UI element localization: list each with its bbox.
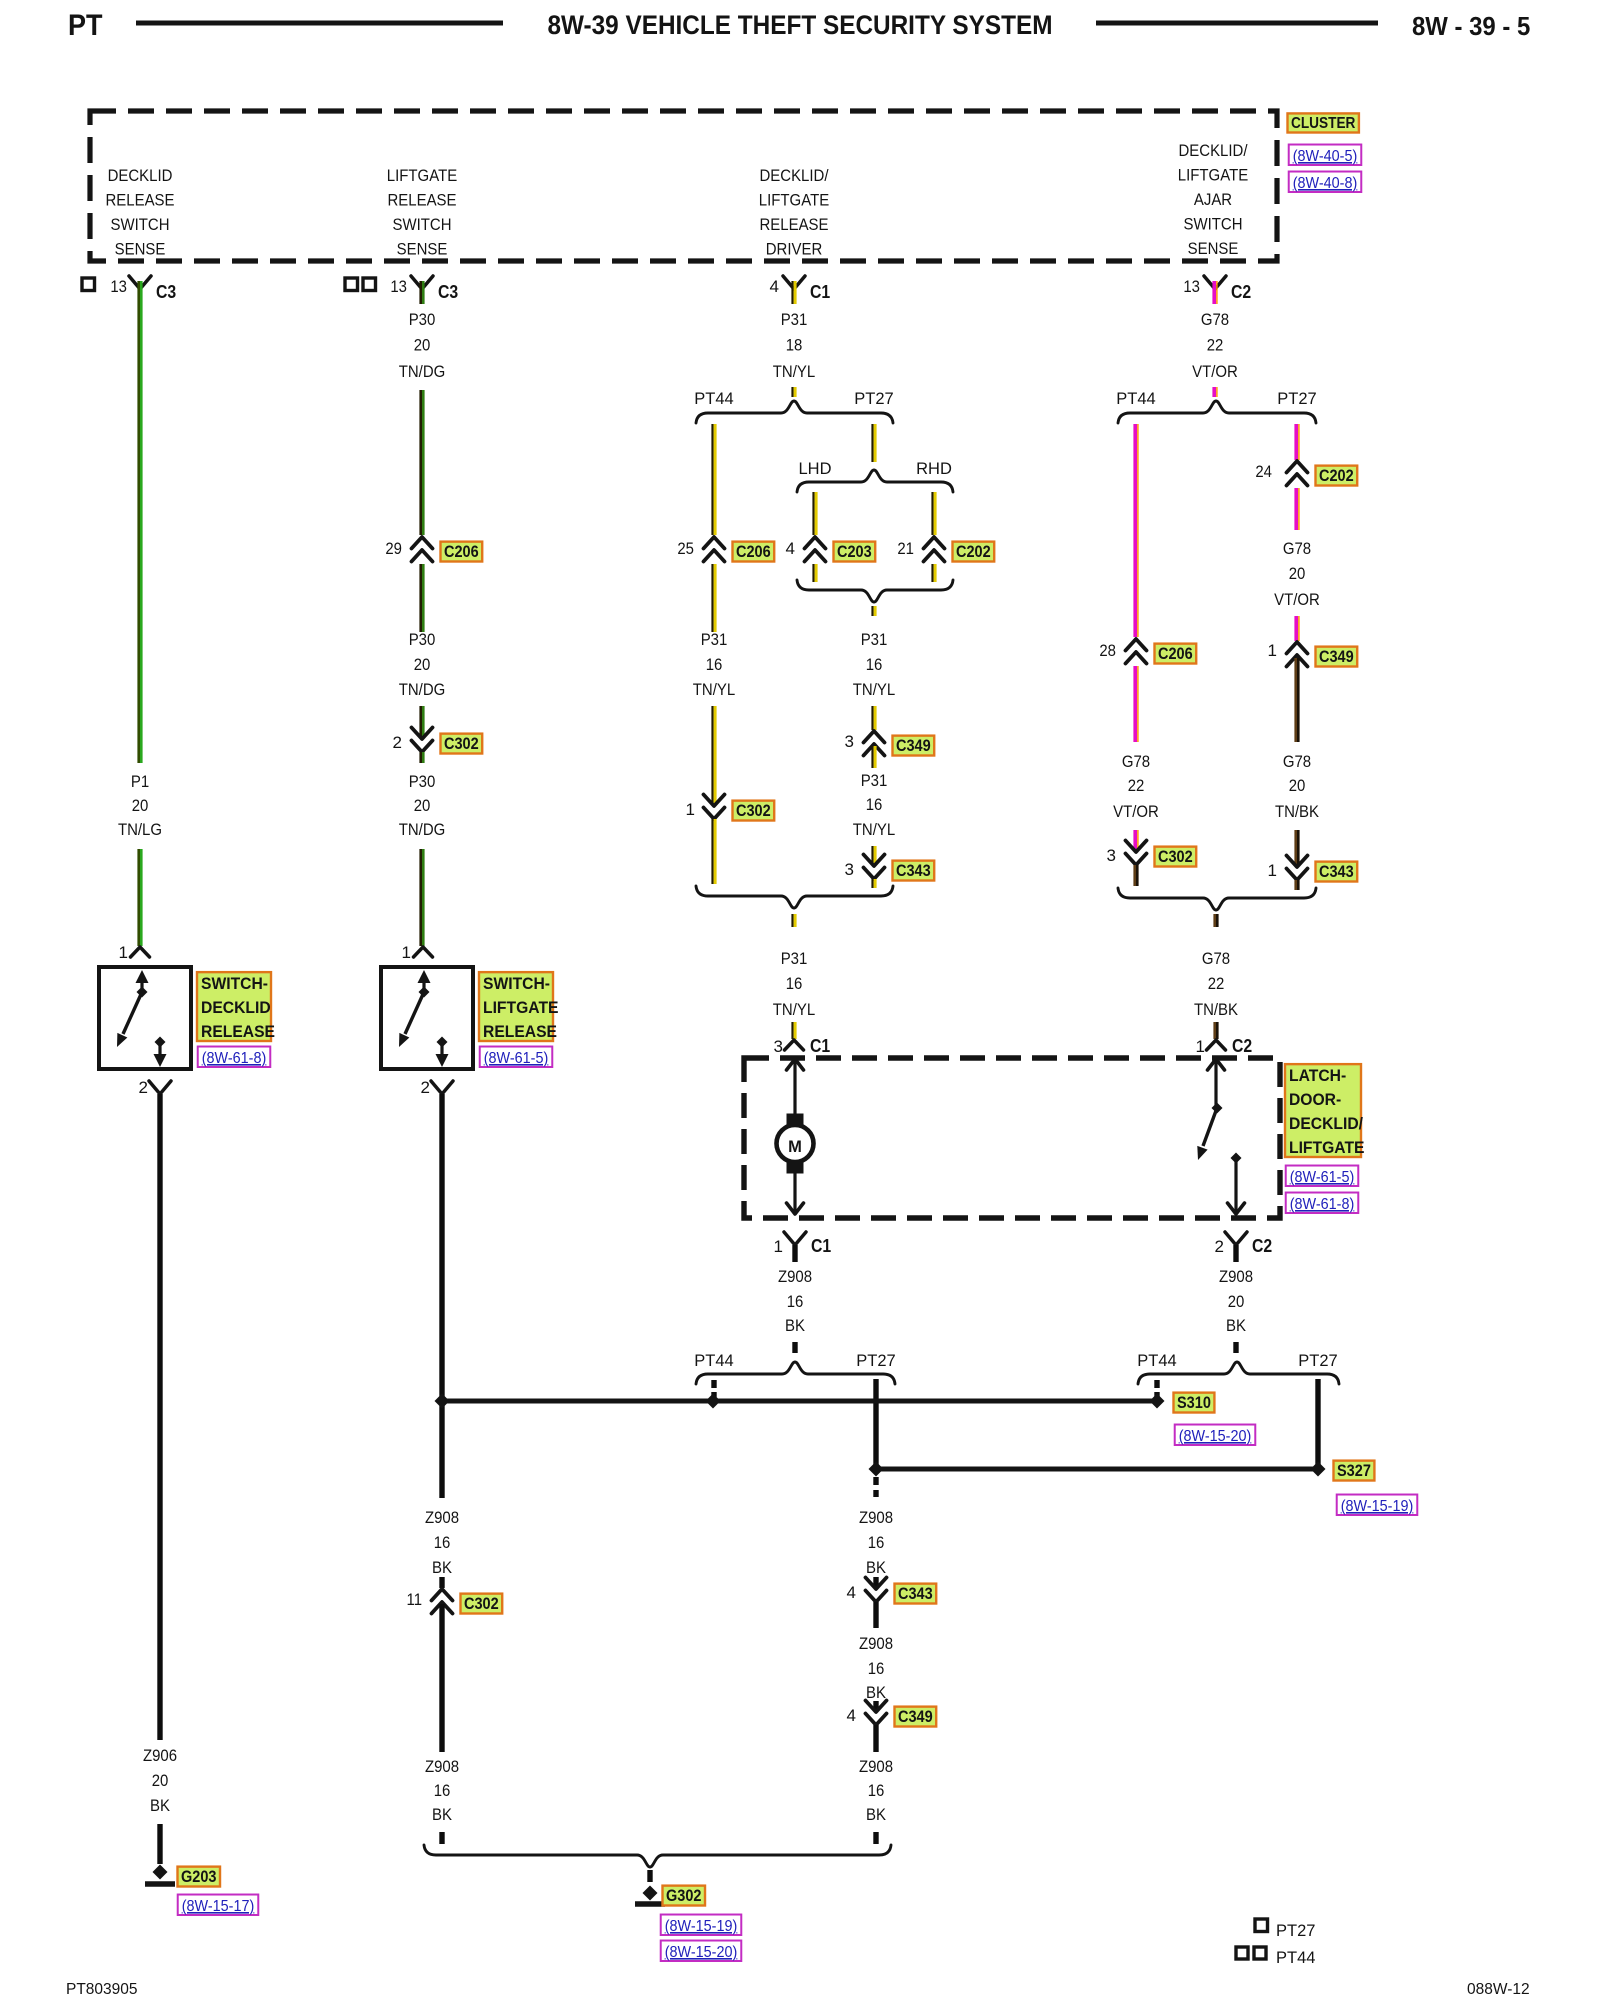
svg-text:PT27: PT27 [1298, 1352, 1337, 1370]
svg-text:PT27: PT27 [854, 390, 893, 408]
svg-text:C202: C202 [956, 543, 991, 561]
svg-text:S327: S327 [1337, 1462, 1371, 1480]
svg-text:1: 1 [686, 800, 695, 819]
svg-text:SENSE: SENSE [397, 240, 448, 259]
svg-text:BK: BK [866, 1558, 887, 1577]
svg-text:C349: C349 [1319, 648, 1354, 666]
svg-text:C1: C1 [810, 1036, 830, 1056]
svg-text:TN/YL: TN/YL [773, 362, 815, 381]
svg-text:C302: C302 [464, 1595, 499, 1613]
svg-text:20: 20 [414, 336, 431, 355]
svg-text:(8W-40-5): (8W-40-5) [1293, 148, 1358, 165]
svg-text:C2: C2 [1232, 1036, 1252, 1056]
svg-text:P31: P31 [861, 630, 888, 649]
svg-text:2: 2 [393, 733, 402, 752]
svg-text:RELEASE: RELEASE [483, 1023, 557, 1041]
svg-text:4: 4 [786, 539, 795, 558]
svg-text:TN/YL: TN/YL [693, 680, 735, 699]
svg-text:C343: C343 [896, 862, 931, 880]
svg-text:1: 1 [1268, 641, 1277, 660]
svg-text:25: 25 [677, 539, 694, 558]
svg-text:P31: P31 [861, 771, 888, 790]
svg-text:M: M [788, 1138, 802, 1156]
svg-text:PT44: PT44 [1276, 1949, 1315, 1967]
svg-text:PT27: PT27 [856, 1352, 895, 1370]
svg-text:C206: C206 [736, 543, 771, 561]
svg-text:1: 1 [1196, 1037, 1205, 1056]
svg-text:Z908: Z908 [425, 1757, 459, 1776]
svg-text:C3: C3 [438, 282, 458, 302]
svg-text:C302: C302 [1158, 848, 1193, 866]
svg-text:20: 20 [152, 1771, 169, 1790]
svg-text:G78: G78 [1283, 539, 1311, 558]
svg-text:Z908: Z908 [778, 1267, 812, 1286]
svg-text:G302: G302 [666, 1887, 702, 1905]
svg-text:BK: BK [432, 1805, 453, 1824]
svg-text:(8W-15-20): (8W-15-20) [1179, 1428, 1252, 1445]
svg-text:Z908: Z908 [859, 1508, 893, 1527]
svg-text:C1: C1 [811, 1236, 831, 1256]
svg-text:20: 20 [1228, 1292, 1245, 1311]
svg-text:G78: G78 [1122, 752, 1150, 771]
svg-text:C1: C1 [810, 282, 830, 302]
svg-text:1: 1 [402, 943, 411, 962]
svg-text:PT44: PT44 [694, 1352, 733, 1370]
svg-text:RELEASE: RELEASE [760, 215, 829, 234]
svg-text:18: 18 [786, 336, 803, 355]
svg-text:P30: P30 [409, 310, 436, 329]
svg-text:DECKLID/: DECKLID/ [1179, 141, 1248, 160]
svg-text:3: 3 [845, 860, 854, 879]
svg-text:SWITCH-: SWITCH- [201, 975, 268, 993]
svg-text:16: 16 [866, 655, 883, 674]
svg-text:22: 22 [1208, 974, 1225, 993]
svg-text:TN/LG: TN/LG [118, 820, 162, 839]
svg-text:DRIVER: DRIVER [766, 240, 823, 259]
svg-text:TN/BK: TN/BK [1194, 1000, 1239, 1019]
svg-text:3: 3 [774, 1037, 783, 1056]
svg-text:088W-12: 088W-12 [1467, 1981, 1530, 1998]
svg-text:PT44: PT44 [1137, 1352, 1176, 1370]
svg-text:BK: BK [866, 1805, 887, 1824]
svg-text:RELEASE: RELEASE [201, 1023, 275, 1041]
svg-text:16: 16 [434, 1781, 451, 1800]
svg-text:C206: C206 [444, 543, 479, 561]
svg-text:11: 11 [407, 1590, 423, 1609]
svg-text:20: 20 [132, 796, 149, 815]
svg-text:16: 16 [706, 655, 723, 674]
svg-text:PT27: PT27 [1276, 1922, 1315, 1940]
svg-text:16: 16 [786, 974, 803, 993]
svg-text:16: 16 [434, 1533, 451, 1552]
svg-text:22: 22 [1207, 336, 1224, 355]
svg-text:BK: BK [1226, 1316, 1247, 1335]
svg-text:RHD: RHD [916, 460, 952, 478]
svg-text:1: 1 [119, 943, 128, 962]
svg-text:2: 2 [1215, 1237, 1224, 1256]
svg-text:2: 2 [421, 1078, 430, 1097]
svg-text:3: 3 [1107, 846, 1116, 865]
svg-text:P30: P30 [409, 772, 436, 791]
svg-text:3: 3 [845, 732, 854, 751]
svg-text:BK: BK [150, 1796, 171, 1815]
svg-text:Z908: Z908 [859, 1634, 893, 1653]
svg-text:4: 4 [770, 277, 779, 296]
svg-text:TN/DG: TN/DG [399, 680, 446, 699]
svg-text:SENSE: SENSE [1188, 239, 1239, 258]
svg-text:Z908: Z908 [1219, 1267, 1253, 1286]
svg-text:P30: P30 [409, 630, 436, 649]
svg-text:G78: G78 [1202, 949, 1230, 968]
svg-text:C343: C343 [1319, 863, 1354, 881]
svg-text:(8W-15-20): (8W-15-20) [665, 1944, 738, 1961]
svg-text:SWITCH: SWITCH [1184, 215, 1243, 234]
svg-text:(8W-61-8): (8W-61-8) [1290, 1196, 1355, 1213]
svg-text:PT44: PT44 [1116, 390, 1155, 408]
svg-text:13: 13 [110, 277, 127, 296]
svg-text:LIFTGATE: LIFTGATE [759, 191, 829, 210]
svg-text:CLUSTER: CLUSTER [1291, 115, 1355, 132]
svg-text:(8W-61-8): (8W-61-8) [202, 1050, 267, 1067]
svg-text:LIFTGATE: LIFTGATE [387, 166, 457, 185]
svg-text:4: 4 [847, 1706, 856, 1725]
svg-text:P1: P1 [131, 772, 149, 791]
svg-text:C3: C3 [156, 282, 176, 302]
svg-text:C203: C203 [837, 543, 872, 561]
svg-text:DECKLID/: DECKLID/ [760, 166, 829, 185]
svg-text:VT/OR: VT/OR [1192, 362, 1238, 381]
svg-text:G78: G78 [1201, 310, 1229, 329]
svg-text:AJAR: AJAR [1194, 190, 1232, 209]
svg-text:PT803905: PT803905 [66, 1981, 138, 1998]
svg-text:PT44: PT44 [694, 390, 733, 408]
svg-text:P31: P31 [781, 310, 808, 329]
svg-text:RELEASE: RELEASE [106, 191, 175, 210]
svg-text:DECKLID/: DECKLID/ [1289, 1115, 1363, 1133]
svg-text:C349: C349 [898, 1708, 933, 1726]
svg-text:G203: G203 [181, 1868, 217, 1886]
svg-text:VT/OR: VT/OR [1274, 590, 1320, 609]
svg-text:16: 16 [866, 795, 883, 814]
svg-text:P31: P31 [701, 630, 728, 649]
svg-text:C202: C202 [1319, 467, 1354, 485]
svg-text:C349: C349 [896, 737, 931, 755]
svg-text:1: 1 [1268, 861, 1277, 880]
svg-text:16: 16 [868, 1533, 885, 1552]
svg-text:(8W-15-19): (8W-15-19) [665, 1918, 738, 1935]
svg-text:20: 20 [414, 796, 431, 815]
svg-text:20: 20 [1289, 776, 1306, 795]
svg-text:DECKLID: DECKLID [201, 999, 271, 1017]
svg-text:LHD: LHD [798, 460, 831, 478]
svg-text:BK: BK [866, 1683, 887, 1702]
svg-text:Z908: Z908 [859, 1757, 893, 1776]
svg-text:C2: C2 [1252, 1236, 1272, 1256]
svg-text:DECKLID: DECKLID [108, 166, 173, 185]
svg-text:TN/YL: TN/YL [853, 680, 895, 699]
svg-text:S310: S310 [1177, 1394, 1211, 1412]
svg-text:TN/DG: TN/DG [399, 820, 446, 839]
svg-text:LIFTGATE: LIFTGATE [1289, 1139, 1365, 1157]
svg-text:TN/DG: TN/DG [399, 362, 446, 381]
svg-text:PT: PT [68, 9, 103, 42]
svg-text:16: 16 [868, 1659, 885, 1678]
svg-text:4: 4 [847, 1583, 856, 1602]
svg-text:(8W-61-5): (8W-61-5) [484, 1050, 549, 1067]
svg-text:(8W-40-8): (8W-40-8) [1293, 175, 1358, 192]
svg-text:Z908: Z908 [425, 1508, 459, 1527]
svg-text:8W-39 VEHICLE THEFT SECURITY S: 8W-39 VEHICLE THEFT SECURITY SYSTEM [548, 10, 1053, 40]
svg-text:20: 20 [414, 655, 431, 674]
svg-text:21: 21 [897, 539, 914, 558]
svg-text:13: 13 [390, 277, 407, 296]
svg-text:SWITCH-: SWITCH- [483, 975, 550, 993]
svg-text:C2: C2 [1231, 282, 1251, 302]
svg-text:22: 22 [1128, 776, 1145, 795]
svg-text:LATCH-: LATCH- [1289, 1067, 1346, 1085]
svg-text:SWITCH: SWITCH [111, 215, 170, 234]
svg-text:C302: C302 [444, 735, 479, 753]
svg-text:(8W-15-17): (8W-15-17) [182, 1898, 255, 1915]
svg-text:LIFTGATE: LIFTGATE [483, 999, 559, 1017]
svg-text:24: 24 [1255, 462, 1272, 481]
svg-text:(8W-15-19): (8W-15-19) [1341, 1498, 1414, 1515]
svg-text:13: 13 [1183, 277, 1200, 296]
svg-text:P31: P31 [781, 949, 808, 968]
svg-text:C343: C343 [898, 1585, 933, 1603]
svg-text:2: 2 [139, 1078, 148, 1097]
svg-text:20: 20 [1289, 564, 1306, 583]
svg-text:TN/BK: TN/BK [1275, 802, 1320, 821]
svg-text:Z906: Z906 [143, 1746, 177, 1765]
svg-text:BK: BK [785, 1316, 806, 1335]
svg-text:C206: C206 [1158, 645, 1193, 663]
svg-text:1: 1 [774, 1237, 783, 1256]
svg-text:BK: BK [432, 1558, 453, 1577]
svg-text:TN/YL: TN/YL [853, 820, 895, 839]
svg-text:(8W-61-5): (8W-61-5) [1290, 1169, 1355, 1186]
svg-text:16: 16 [868, 1781, 885, 1800]
svg-text:SENSE: SENSE [115, 240, 166, 259]
svg-text:28: 28 [1099, 641, 1116, 660]
svg-text:C302: C302 [736, 802, 771, 820]
svg-text:29: 29 [385, 539, 402, 558]
svg-text:VT/OR: VT/OR [1113, 802, 1159, 821]
svg-text:TN/YL: TN/YL [773, 1000, 815, 1019]
svg-text:G78: G78 [1283, 752, 1311, 771]
svg-text:16: 16 [787, 1292, 804, 1311]
svg-text:DOOR-: DOOR- [1289, 1091, 1341, 1109]
svg-text:LIFTGATE: LIFTGATE [1178, 166, 1248, 185]
svg-text:SWITCH: SWITCH [393, 215, 452, 234]
svg-text:8W - 39 - 5: 8W - 39 - 5 [1412, 11, 1530, 41]
svg-text:PT27: PT27 [1277, 390, 1316, 408]
svg-text:RELEASE: RELEASE [388, 191, 457, 210]
